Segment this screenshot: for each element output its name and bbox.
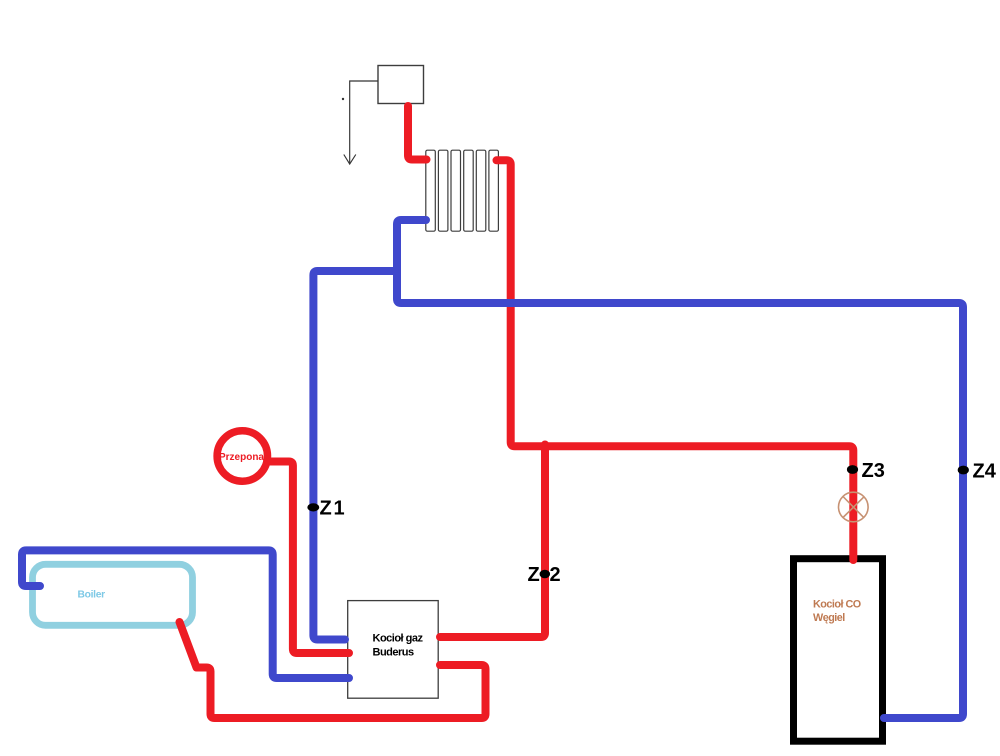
svg-text:2: 2 <box>550 564 561 586</box>
svg-text:Z3: Z3 <box>862 460 885 482</box>
svg-text:1: 1 <box>334 497 345 519</box>
svg-text:Boiler: Boiler <box>78 590 106 601</box>
svg-text:Kocioł CO: Kocioł CO <box>813 599 861 611</box>
svg-text:Z: Z <box>528 564 540 586</box>
svg-text:Przepona: Przepona <box>219 452 264 463</box>
svg-text:Buderus: Buderus <box>373 647 415 659</box>
svg-text:Kocioł gaz: Kocioł gaz <box>373 633 424 645</box>
svg-text:Z4: Z4 <box>973 461 997 483</box>
svg-text:Z: Z <box>320 497 332 519</box>
svg-text:Węgiel: Węgiel <box>813 612 845 624</box>
